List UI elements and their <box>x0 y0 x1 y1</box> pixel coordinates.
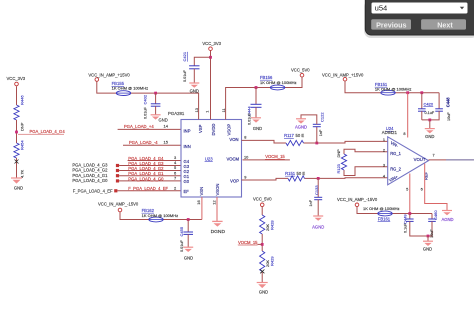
ground GND opamp supply <box>425 128 435 130</box>
node VOCM_15 <box>261 243 264 246</box>
svg-text:C420: C420 <box>424 101 434 106</box>
svg-text:VCC_3V3: VCC_3V3 <box>202 41 221 46</box>
svg-text:VCC_IN_AMP_+15V0: VCC_IN_AMP_+15V0 <box>88 73 130 78</box>
svg-text:R151: R151 <box>285 171 296 176</box>
svg-text:AGND: AGND <box>312 225 324 230</box>
resistor R454 4.7K <box>14 143 19 158</box>
svg-text:1K OHM @ 100MHz: 1K OHM @ 100MHz <box>363 206 400 211</box>
svg-text:GND: GND <box>253 126 262 131</box>
svg-text:20K: 20K <box>265 260 270 267</box>
svg-text:C448: C448 <box>446 97 451 108</box>
wire <box>16 120 18 143</box>
ground GND (left divider) <box>11 177 22 179</box>
svg-text:8: 8 <box>244 135 246 140</box>
svg-text:C402: C402 <box>143 94 148 104</box>
svg-text:DNP: DNP <box>20 122 25 131</box>
svg-text:GND: GND <box>425 134 434 139</box>
node opamp V+ <box>406 91 409 94</box>
svg-text:1nF: 1nF <box>319 129 323 136</box>
node C122 tap <box>315 142 318 145</box>
svg-text:C455: C455 <box>179 226 184 236</box>
svg-text:2: 2 <box>383 148 385 153</box>
svg-text:PGA_LOAD_4_G0: PGA_LOAD_4_G0 <box>72 178 108 183</box>
wire divider top <box>261 207 263 215</box>
wire VSON pin12 <box>216 197 218 221</box>
power symbol VCC_5V0 (VSOP) <box>300 73 304 77</box>
resistor R446 DNP <box>14 105 19 120</box>
wire G1 <box>119 175 181 177</box>
svg-text:15: 15 <box>164 140 169 145</box>
svg-text:RG_1: RG_1 <box>390 151 401 156</box>
capacitor C122 1nF to AGND <box>316 127 318 144</box>
ground AGND (C122) <box>296 118 306 120</box>
svg-text:3: 3 <box>383 163 385 168</box>
wire VOUT <box>429 159 447 161</box>
svg-text:VCC_IN_AMP_-15V0: VCC_IN_AMP_-15V0 <box>98 202 139 207</box>
node C455 tap <box>187 218 190 221</box>
wire RG loop <box>344 149 388 154</box>
wire INP net PGA_LOAD_+4 <box>118 128 181 130</box>
resistor R123 DNP <box>341 154 346 170</box>
ground DGND <box>212 220 222 222</box>
svg-text:R117: R117 <box>284 133 294 138</box>
svg-text:F_PGA_LOAD_4_EF: F_PGA_LOAD_4_EF <box>128 186 168 191</box>
svg-text:AD8421: AD8421 <box>382 130 398 135</box>
ferrite bead FB156 1K OHM @ 100MHz <box>270 85 284 90</box>
wire +15V rail right <box>345 81 439 93</box>
svg-text:U23: U23 <box>205 156 213 161</box>
button Previous <box>371 19 411 29</box>
svg-text:VCC_IN_AMP_+15V0: VCC_IN_AMP_+15V0 <box>322 72 364 77</box>
svg-text:0.01uF: 0.01uF <box>144 106 148 119</box>
svg-text:VCC_IN_AMP_-15V0: VCC_IN_AMP_-15V0 <box>337 197 378 202</box>
svg-text:0.01uF: 0.01uF <box>248 112 252 125</box>
svg-text:1K OHM @ 100MHz: 1K OHM @ 100MHz <box>142 213 179 218</box>
svg-text:C122: C122 <box>320 112 325 122</box>
wire VSN pin16 <box>201 197 203 220</box>
svg-text:VCC_5V0: VCC_5V0 <box>291 67 310 72</box>
power symbol VCC_IN_AMP_-15V0 (left) <box>118 208 122 212</box>
svg-text:12: 12 <box>212 200 217 204</box>
svg-text:DNP: DNP <box>336 149 341 158</box>
node C133 tap <box>317 177 320 180</box>
search input u54 <box>372 3 468 14</box>
svg-text:R123: R123 <box>336 164 341 173</box>
capacitor C455 0.01uF <box>187 220 189 233</box>
wire G3 <box>119 165 181 167</box>
wire to GND <box>429 120 431 128</box>
svg-text:VCC_5V0: VCC_5V0 <box>253 197 272 202</box>
svg-text:50 E: 50 E <box>296 133 305 138</box>
svg-text:EF: EF <box>184 189 190 194</box>
svg-text:PGA_LOAD_+4: PGA_LOAD_+4 <box>124 124 154 129</box>
wire DVDD <box>210 51 212 120</box>
wire EF <box>117 190 181 192</box>
svg-text:C449: C449 <box>402 214 407 224</box>
svg-text:GND: GND <box>184 255 193 260</box>
capacitor C402 0.01uF <box>155 93 157 104</box>
power symbol VCC_IN_AMP_+15V0 (left) <box>95 78 99 82</box>
svg-text:GND: GND <box>14 186 23 191</box>
search panel <box>364 0 474 38</box>
svg-text:REF: REF <box>423 171 428 180</box>
capacitor C133 1nF to AGND <box>317 178 319 197</box>
svg-text:4.7K: 4.7K <box>20 169 25 178</box>
button Next <box>421 19 466 29</box>
ground GND under C444 <box>251 117 261 119</box>
svg-text:0.01uF: 0.01uF <box>180 239 184 252</box>
wire G4 <box>128 160 181 162</box>
svg-text:0.1uF: 0.1uF <box>403 223 407 233</box>
ground GND divider <box>257 282 268 284</box>
wire VSOP rail <box>226 77 302 120</box>
ferrite bead FB151 1K OHM @ 100MHz <box>381 90 395 95</box>
svg-text:RG_2: RG_2 <box>390 166 401 171</box>
svg-text:DVDD: DVDD <box>211 124 216 136</box>
svg-text:Next: Next <box>437 20 453 29</box>
svg-text:AGND: AGND <box>295 124 307 129</box>
svg-text:1K OHM @ 100MHz: 1K OHM @ 100MHz <box>375 86 412 91</box>
svg-text:DGND: DGND <box>211 229 226 235</box>
capacitor C449 0.1uF <box>409 214 411 220</box>
svg-text:1: 1 <box>383 137 385 142</box>
resistor R438 20K <box>260 215 265 234</box>
svg-text:1K OHM @ 100MHz: 1K OHM @ 100MHz <box>260 80 297 85</box>
op-amp IC U23 PGA281 body <box>181 120 242 198</box>
wire -15V rail to VSN <box>120 212 202 220</box>
wire INN net PGA_LOAD_-4 <box>123 144 181 146</box>
wire <box>16 86 18 105</box>
power symbol VCC_IN_AMP_+15V0 (right) <box>343 77 347 81</box>
wire G0 <box>119 180 181 182</box>
capacitor C448 10uF <box>438 93 440 109</box>
capacitor C420 0.1uF <box>421 93 423 109</box>
wire G2 <box>119 170 181 172</box>
svg-text:VSN: VSN <box>199 187 204 196</box>
svg-text:1nF: 1nF <box>309 199 313 206</box>
ground AGND (REF) <box>442 210 452 212</box>
wire <box>16 158 18 178</box>
svg-text:VOUT: VOUT <box>414 157 426 162</box>
node cap join <box>428 119 431 122</box>
svg-text:VON: VON <box>229 137 238 142</box>
power symbol VCC_IN_AMP_-15V0 (right) <box>355 203 359 207</box>
svg-text:GND: GND <box>423 246 432 251</box>
svg-text:14: 14 <box>164 124 169 129</box>
svg-text:G0: G0 <box>184 179 190 184</box>
svg-text:INN: INN <box>184 144 191 149</box>
svg-text:20K: 20K <box>265 224 270 231</box>
svg-text:10uF: 10uF <box>430 229 434 238</box>
svg-text:PGA_LOAD_4_G4: PGA_LOAD_4_G4 <box>30 129 66 134</box>
svg-text:7: 7 <box>433 152 435 157</box>
node cap join bottom <box>427 235 430 238</box>
svg-text:VSON: VSON <box>215 184 220 196</box>
ground GND under C421 <box>189 82 199 84</box>
svg-text:VSOP: VSOP <box>227 124 232 136</box>
svg-text:PGA281: PGA281 <box>168 111 185 116</box>
svg-text:8: 8 <box>403 131 405 136</box>
ground GND under C402 <box>151 114 161 116</box>
ground AGND (C133) <box>313 215 323 217</box>
svg-text:C421: C421 <box>182 51 187 61</box>
svg-text:VCC_3V3: VCC_3V3 <box>7 76 26 81</box>
capacitor C460 10uF <box>431 214 433 220</box>
svg-text:GND: GND <box>259 290 268 295</box>
svg-text:VOCM: VOCM <box>226 156 239 161</box>
svg-text:PGA_LOAD_4_G0: PGA_LOAD_4_G0 <box>128 176 164 181</box>
svg-text:Previous: Previous <box>376 20 406 29</box>
power symbol VCC_3V3 (DVDD) <box>209 47 213 51</box>
svg-text:VSP: VSP <box>198 124 203 133</box>
node C444 tap <box>255 86 258 89</box>
wire VOCM stub net VOCM_15 <box>243 159 290 161</box>
node PGA_LOAD_4_G4 <box>15 131 18 134</box>
wire +15V rail to VSP <box>97 81 199 119</box>
svg-text:6: 6 <box>421 186 423 191</box>
capacitor C444 0.01uF <box>255 88 257 105</box>
wire opamp V+ pin 8 <box>407 93 409 138</box>
node C420 tap <box>420 91 423 94</box>
ferrite bead FB155 1K OHM @ 100MHz <box>116 91 130 96</box>
ground GND bottom right <box>423 240 433 242</box>
svg-text:AGND: AGND <box>441 217 453 222</box>
svg-text:GND: GND <box>159 117 168 122</box>
resistor R151 50 E <box>288 176 305 181</box>
node opamp V- join <box>408 212 411 215</box>
U23 pin names <box>184 124 240 196</box>
svg-text:VOP: VOP <box>230 179 239 184</box>
wire REF to AGND <box>425 164 447 211</box>
op-amp U24 AD8421 triangle <box>388 137 429 185</box>
svg-text:C460: C460 <box>433 210 438 220</box>
node VSP bypass <box>154 92 157 95</box>
wire divider bottom <box>261 272 263 283</box>
wire to GND <box>427 236 429 241</box>
svg-text:INP: INP <box>184 128 191 133</box>
svg-text:9: 9 <box>244 175 246 180</box>
svg-text:0.01uF: 0.01uF <box>183 69 187 82</box>
svg-text:u54: u54 <box>375 4 388 13</box>
svg-text:0.1uF: 0.1uF <box>425 111 435 115</box>
svg-text:PGA_LOAD_-4: PGA_LOAD_-4 <box>129 140 158 145</box>
svg-text:FB161: FB161 <box>378 216 391 221</box>
wire VOP to opamp pin4 <box>242 178 289 180</box>
power symbol VCC_3V3 (left divider) <box>15 82 19 86</box>
svg-text:10uF: 10uF <box>447 112 451 121</box>
svg-text:1K OHM @ 100MHz: 1K OHM @ 100MHz <box>112 86 149 91</box>
svg-text:1: 1 <box>204 111 209 113</box>
svg-text:F_PGA_LOAD_4_EF: F_PGA_LOAD_4_EF <box>73 188 113 193</box>
capacitor C421 0.01uF <box>194 57 210 66</box>
wire opamp V- pin 5 <box>409 174 411 214</box>
svg-text:GND: GND <box>190 88 199 93</box>
wire to VOCM node <box>261 234 263 251</box>
ferrite bead FB157 1K OHM @ 100MHz <box>149 217 163 222</box>
wire VON to opamp pin1 <box>242 140 287 143</box>
svg-text:R454: R454 <box>20 140 25 150</box>
svg-text:VOCM_15: VOCM_15 <box>265 154 285 159</box>
svg-text:5: 5 <box>406 186 408 191</box>
svg-text:C133: C133 <box>314 185 319 195</box>
power symbol VCC_5V0 (divider) <box>260 203 264 207</box>
svg-text:50 E: 50 E <box>297 171 306 176</box>
wire -15V rail right <box>357 207 432 214</box>
ground GND under C455 <box>183 246 193 248</box>
svg-text:16: 16 <box>196 200 201 204</box>
ferrite bead FB161 1K OHM @ 100MHz <box>378 211 392 216</box>
resistor R117 50 E <box>286 140 304 145</box>
resistor R439 20K <box>260 251 265 272</box>
svg-text:VOCM_15: VOCM_15 <box>238 240 258 245</box>
svg-text:R446: R446 <box>20 95 25 105</box>
node C421 tap <box>209 56 212 59</box>
